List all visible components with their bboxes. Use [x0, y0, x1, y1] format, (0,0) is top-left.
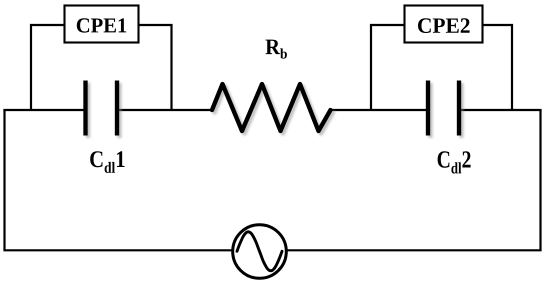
wire: CPE2 right branch [483, 25, 512, 110]
capacitor C_dl1 plates [86, 81, 118, 136]
value label R_b (resistor) [266, 40, 287, 59]
resistor R_b shadow [215, 87, 334, 134]
wire: main loop left edge [3, 110, 5, 250]
wire: CPE1 right branch [139, 25, 172, 110]
value label C_dl2 (right capacitor) [438, 151, 471, 173]
wire: top wire between resistor and capacitor C_dl2 [330, 109, 429, 111]
AC voltage source sine wave [237, 232, 282, 271]
AC voltage source (circle) [233, 225, 287, 279]
wire: bottom right segment [287, 249, 542, 251]
wire: CPE1 left branch [31, 25, 64, 110]
wire: CPE2 left branch [371, 25, 405, 110]
capacitor C_dl2 shadow [431, 83, 462, 138]
wire: top wire from left edge to capacitor C_dl1 [3, 109, 85, 111]
value label C_dl1 (left capacitor) [90, 151, 124, 173]
wire: top wire between C_dl1 and resistor [118, 109, 214, 111]
constant phase element CPE1 (box) [65, 6, 139, 43]
wire: main loop right edge [539, 110, 541, 250]
resistor R_b zigzag [212, 84, 331, 131]
capacitor C_dl1 shadow [88, 83, 120, 138]
capacitor C_dl2 plates [428, 81, 459, 136]
constant phase element CPE2 (box) [405, 6, 483, 43]
wire: bottom left segment [3, 249, 232, 251]
wire: top wire from C_dl2 to right edge [459, 109, 542, 111]
